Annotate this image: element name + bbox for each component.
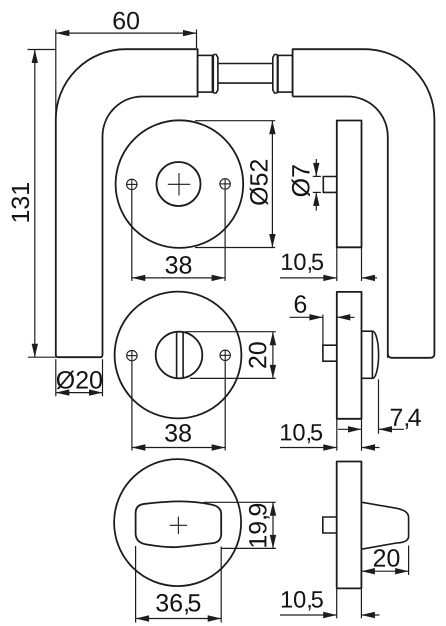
rosette 1 side view (337, 121, 362, 248)
dimension D52 (195, 120, 275, 122)
rosette 1 face (circle) (116, 120, 244, 248)
thumbturn knob front view (136, 501, 222, 547)
spindle neck (connecting rod) (218, 63, 273, 65)
screw right rosette 2 (220, 350, 230, 360)
dimension 19,9 (204, 501, 276, 503)
handle base circle (157, 162, 201, 206)
center cross rosette 3 (170, 524, 187, 526)
lever handle left (front view outline) (56, 49, 198, 357)
rosette 2 face (circle) (115, 292, 242, 419)
spindle pin row3 (323, 517, 337, 533)
collar left (198, 55, 213, 92)
dimension 10,5 row2 (336, 419, 338, 451)
lever handle right (side view outline) (293, 49, 435, 358)
dimension 60 (55, 30, 57, 120)
bearing ring right (276, 55, 278, 94)
rosette 3 face (circle) (114, 459, 241, 586)
dimension D7 (313, 175, 321, 177)
collar right (278, 55, 293, 92)
thumbturn slot (176, 332, 178, 379)
dimension 6 (322, 315, 324, 346)
dimension 10,5 row1 (336, 247, 338, 281)
dimension 131 (28, 49, 57, 51)
screw left rosette 1 (127, 179, 137, 189)
center cross rosette 1 (168, 183, 190, 185)
bearing ring left (212, 55, 214, 94)
screw right rosette 1 (220, 179, 230, 189)
dimension 38 row2 (131, 361, 133, 450)
spindle pin row2 (323, 345, 337, 361)
rosette 3 side view (337, 462, 362, 589)
dimension D20 grip (55, 359, 57, 396)
dimension 10,5 row3 (336, 588, 338, 618)
dimension 20 row3 (408, 546, 410, 576)
dimension 20 row2 (185, 331, 276, 333)
screw left rosette 2 (127, 350, 137, 360)
rosette 2 side view (337, 292, 362, 419)
thumbturn circle (156, 332, 203, 379)
dimension 7,4 (378, 379, 380, 434)
dimension 38 row1 (131, 190, 133, 281)
thumbturn knob side view row3 (361, 502, 408, 549)
dimension 36,5 (135, 546, 137, 623)
thumbturn knob side view row2 (362, 331, 379, 378)
spindle pin row1 (323, 177, 337, 193)
